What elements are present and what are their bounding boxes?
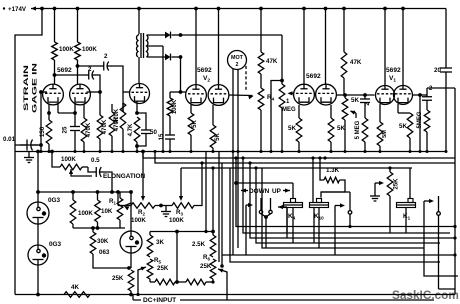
svg-text:2: 2 (88, 66, 92, 73)
svg-text:25K: 25K (157, 265, 169, 272)
svg-text:V2: V2 (203, 75, 210, 84)
svg-text:K4: K4 (288, 213, 296, 221)
svg-text:100K: 100K (59, 46, 74, 53)
svg-text:5K: 5K (288, 125, 296, 132)
svg-text:4.7K: 4.7K (128, 123, 134, 136)
svg-text:R2: R2 (138, 209, 145, 217)
svg-text:STRAIN: STRAIN (23, 64, 30, 111)
svg-text:UP: UP (272, 188, 282, 195)
svg-text:10K: 10K (101, 208, 113, 215)
svg-text:5692: 5692 (197, 67, 212, 74)
svg-text:100K: 100K (131, 217, 146, 224)
svg-text:MOT: MOT (231, 55, 244, 61)
svg-text:DOWN: DOWN (249, 188, 270, 195)
svg-text:0.5: 0.5 (91, 157, 100, 164)
svg-text:2: 2 (429, 86, 433, 92)
svg-text:4K: 4K (71, 284, 79, 291)
svg-text:5MEG: 5MEG (417, 111, 423, 128)
svg-text:100K: 100K (172, 99, 178, 114)
svg-text:5692: 5692 (57, 67, 72, 74)
svg-text:100K: 100K (78, 210, 93, 217)
svg-text:5K: 5K (351, 97, 359, 104)
svg-text:25K: 25K (112, 275, 124, 282)
svg-text:47K: 47K (266, 58, 278, 65)
svg-text:R5: R5 (154, 257, 161, 265)
svg-text:5692: 5692 (306, 73, 321, 80)
svg-text:GAGE IN: GAGE IN (32, 62, 39, 113)
svg-text:R3: R3 (176, 209, 183, 217)
svg-text:0G3: 0G3 (49, 241, 62, 248)
svg-text:470K: 470K (85, 122, 92, 137)
svg-text:100K: 100K (169, 217, 184, 224)
svg-text:DC+INPUT: DC+INPUT (143, 297, 176, 304)
svg-text:25K: 25K (200, 263, 212, 270)
svg-text:15: 15 (159, 133, 165, 140)
svg-text:25K: 25K (394, 178, 400, 190)
svg-text:47K: 47K (350, 59, 362, 66)
svg-text:0.01: 0.01 (3, 136, 16, 143)
svg-text:ELONGATION: ELONGATION (103, 173, 146, 180)
svg-text:470K: 470K (101, 119, 108, 134)
svg-text:2: 2 (236, 62, 239, 68)
svg-text:5K: 5K (399, 123, 407, 130)
svg-text:3K: 3K (156, 239, 164, 246)
svg-text:1.3K: 1.3K (326, 167, 340, 174)
svg-text:5K: 5K (215, 132, 221, 140)
svg-text:5K: 5K (192, 119, 198, 127)
svg-text:2.5K: 2.5K (192, 241, 206, 248)
svg-text:+174V: +174V (8, 6, 27, 13)
svg-text:30K: 30K (97, 238, 109, 245)
svg-text:470K: 470K (114, 108, 120, 123)
svg-text:100K: 100K (61, 156, 76, 163)
svg-text:150: 150 (39, 126, 46, 137)
svg-text:2: 2 (104, 53, 108, 60)
svg-text:5692: 5692 (386, 67, 401, 74)
svg-text:R1: R1 (109, 198, 116, 206)
svg-text:5 MEG: 5 MEG (355, 120, 361, 139)
svg-text:5K: 5K (337, 125, 345, 132)
svg-text:MEG: MEG (282, 107, 296, 113)
svg-text:5M: 5M (382, 130, 388, 138)
svg-text:1: 1 (286, 99, 290, 105)
svg-text:20: 20 (434, 67, 441, 74)
svg-text:50: 50 (150, 129, 157, 136)
svg-text:25: 25 (62, 126, 69, 133)
svg-text:063: 063 (99, 249, 110, 256)
svg-text:0G3: 0G3 (48, 197, 61, 204)
svg-text:100K: 100K (82, 46, 97, 53)
svg-text:V1: V1 (389, 75, 396, 84)
svg-text:K1: K1 (403, 213, 411, 221)
